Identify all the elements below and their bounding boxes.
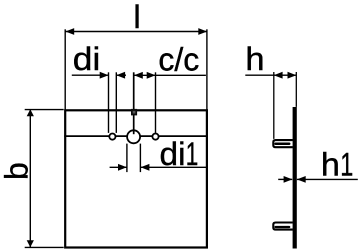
svg-text:h: h [245, 41, 264, 77]
dimension h1 left tail [278, 178, 292, 180]
arrow l right-pointing [198, 28, 207, 35]
dimension h line [245, 74, 296, 76]
svg-text:b: b [0, 162, 35, 180]
arrow b up-pointing [27, 109, 34, 116]
extension line l left [64, 29, 66, 110]
hole left (small circle) [109, 134, 115, 140]
extension line di1 left [126, 144, 128, 173]
svg-text:di: di [73, 41, 101, 77]
clip upper tongue [276, 143, 290, 146]
hole right (small circle) [152, 134, 158, 140]
fixing plug square [131, 109, 137, 116]
inner rail line [64, 135, 208, 137]
arrow h right-pointing [288, 72, 297, 79]
center line to big hole [133, 72, 135, 134]
extension line di right [115, 72, 117, 133]
arrow l left-pointing [65, 28, 74, 35]
front view plate outline [65, 110, 207, 247]
arrow h1 right-pointing [284, 176, 293, 183]
arrow h left-pointing [274, 72, 283, 79]
svg-text:h: h [321, 147, 340, 183]
hole center (big circle) [127, 130, 140, 143]
arrow c/c right-pointing [147, 72, 156, 79]
dimension di line [72, 74, 109, 76]
arrow h1 left-pointing [297, 176, 306, 183]
svg-text:1: 1 [340, 147, 353, 183]
arrow di right-pointing [100, 72, 109, 79]
svg-text:c/c: c/c [158, 42, 199, 78]
dimension di1 right tail [141, 166, 208, 168]
dimension b line [29, 109, 31, 247]
extension line b top [25, 109, 64, 111]
arrow di1 right-pointing [118, 164, 127, 171]
dimension di1 left tail [110, 166, 127, 168]
extension line h left [273, 72, 275, 139]
dimension l line [65, 31, 207, 33]
svg-text:1: 1 [186, 136, 199, 172]
svg-text:l: l [133, 0, 140, 35]
extension line h right [295, 72, 297, 107]
extension line di left [108, 72, 110, 133]
extension line c/c right [155, 72, 157, 133]
svg-text:di: di [160, 136, 186, 172]
extension line di1 right [139, 144, 141, 173]
extension line l right [206, 29, 208, 110]
clip upper [273, 140, 293, 147]
extension line b bottom [25, 246, 64, 248]
dimension h1 right tail [297, 178, 358, 180]
arrow c/c left-pointing [134, 72, 143, 79]
dimension di tail right [117, 74, 127, 76]
dimension c/c line [134, 74, 206, 76]
arrow di1 left-pointing [141, 164, 150, 171]
clip lower tongue [276, 226, 290, 228]
clip lower [273, 223, 293, 230]
arrow di left-pointing [116, 72, 125, 79]
arrow b down-pointing [27, 240, 34, 247]
side view plate bar [293, 107, 297, 249]
